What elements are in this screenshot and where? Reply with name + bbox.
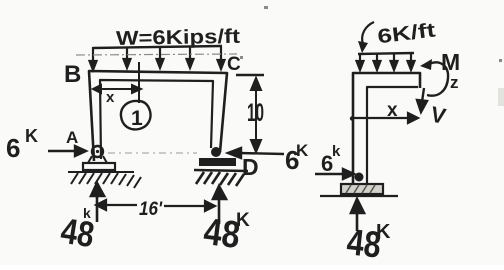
FBD load arrow 1 <box>357 54 364 70</box>
section cut line at distance x <box>138 62 140 103</box>
FBD member inner outline <box>367 87 418 184</box>
span dimension 16' <box>96 199 215 220</box>
pin support at A <box>83 146 115 170</box>
frame inner outline <box>100 80 213 159</box>
svg-text:D: D <box>242 154 259 180</box>
svg-text:M: M <box>441 49 460 75</box>
svg-text:k: k <box>332 143 341 160</box>
svg-text:A: A <box>66 128 78 147</box>
svg-text:10: 10 <box>247 99 264 127</box>
FBD x dimension <box>350 113 418 123</box>
ground hatching at D <box>194 170 248 186</box>
frame outer outline (columns A-B, C-D and beam B-C) <box>89 71 227 161</box>
FBD distributed load line <box>358 53 414 54</box>
svg-text:z: z <box>450 73 459 92</box>
FBD base plate <box>341 184 383 194</box>
svg-text:x: x <box>387 100 398 121</box>
centerline dash-dot under load <box>76 54 237 55</box>
load arrow 3 <box>157 47 164 68</box>
shear arrow V <box>417 88 427 112</box>
svg-text:K: K <box>25 126 38 146</box>
x dimension arrow (double headed) <box>93 85 141 93</box>
applied force 6K at D (pointing left) <box>228 141 309 175</box>
load label W = 6 Kips/ft <box>116 26 241 50</box>
FBD force 6k at base <box>315 143 354 179</box>
distributed load line <box>93 46 222 48</box>
svg-text:1: 1 <box>131 107 143 130</box>
scan speckles <box>240 6 504 106</box>
svg-text:6: 6 <box>6 133 20 163</box>
pin axis dash-dot line <box>108 152 197 154</box>
height dimension 10 <box>236 75 264 152</box>
svg-text:K: K <box>236 210 250 231</box>
svg-text:K: K <box>376 221 391 243</box>
curved pointer to load <box>358 22 374 53</box>
FBD ground line <box>320 195 398 197</box>
svg-text:48: 48 <box>58 210 97 256</box>
reaction 48K at D <box>201 186 250 257</box>
svg-text:C: C <box>227 54 241 75</box>
svg-text:16': 16' <box>139 199 163 220</box>
svg-text:B: B <box>64 61 81 88</box>
svg-text:K: K <box>296 141 309 160</box>
FBD reaction 48K <box>345 199 391 266</box>
FBD load label 6K/ft <box>376 19 437 48</box>
reaction 48K at A <box>58 183 104 255</box>
FBD load arrow 3 <box>391 54 398 70</box>
moment Mz curved arrow <box>420 59 448 96</box>
pin support at D (darker) <box>199 147 236 166</box>
ground hatching at A <box>68 172 141 188</box>
applied force 6K at A <box>6 126 86 163</box>
FBD member outer outline <box>353 73 420 186</box>
load arrow 1 <box>90 47 97 70</box>
FBD pin <box>355 173 364 182</box>
circled node 1 <box>121 101 151 130</box>
load arrow 4 <box>187 47 194 68</box>
label V <box>428 101 448 129</box>
load arrow 5 <box>218 46 225 69</box>
load arrow 2 <box>124 47 131 68</box>
FBD load arrow 2 <box>374 54 381 70</box>
FBD load arrow 4 <box>408 53 415 70</box>
svg-text:x: x <box>106 89 115 106</box>
